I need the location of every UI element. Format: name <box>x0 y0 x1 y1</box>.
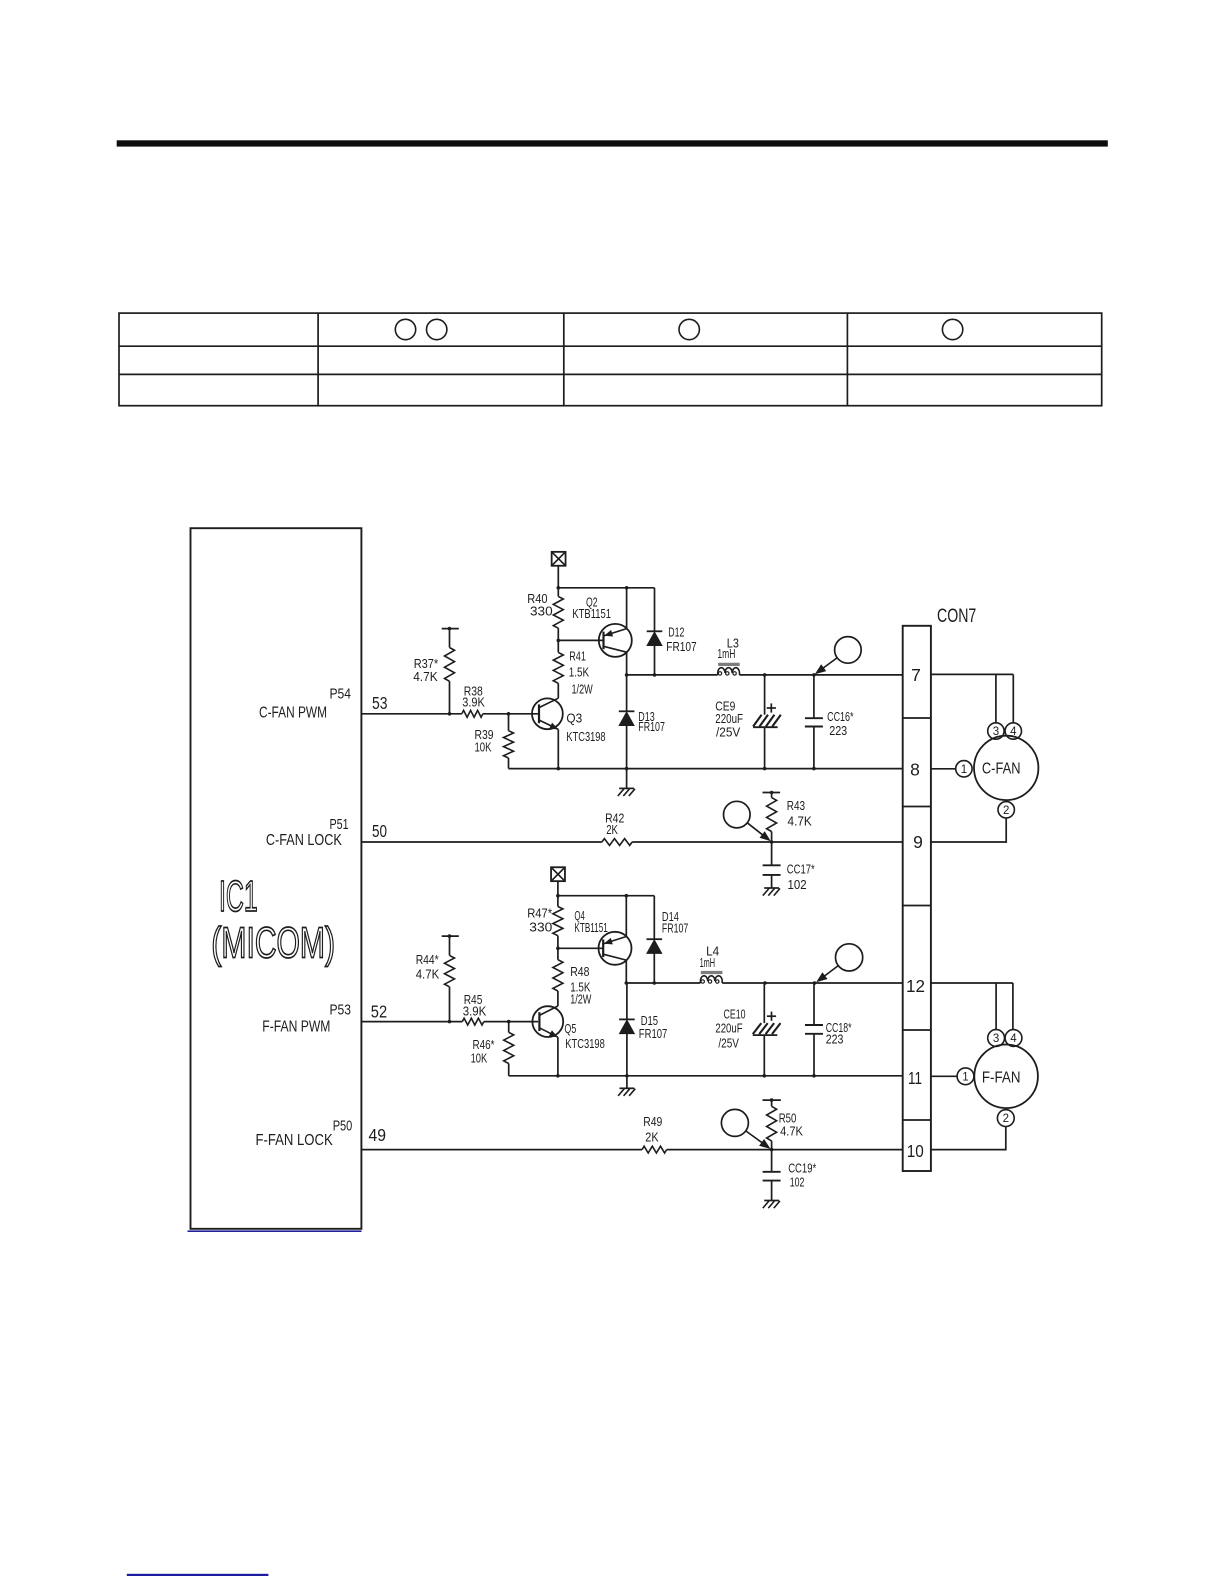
svg-text:F-FAN: F-FAN <box>982 1069 1021 1086</box>
resistor R42 2K <box>602 811 632 845</box>
callout circle on F lock wire <box>721 1109 748 1136</box>
svg-text:FR107: FR107 <box>639 1027 668 1041</box>
svg-text:1: 1 <box>961 764 967 776</box>
callout circle on F output wire <box>836 944 863 971</box>
table indicator circles <box>395 319 963 339</box>
resistor R43 4.7K <box>763 791 813 842</box>
svg-text:CON7: CON7 <box>937 606 976 627</box>
svg-text:2: 2 <box>1003 1113 1009 1125</box>
top rule bar <box>117 140 1108 146</box>
svg-text:102: 102 <box>788 878 807 892</box>
resistor R39 10K to emitter rail <box>475 714 514 769</box>
svg-text:223: 223 <box>826 1033 844 1047</box>
svg-text:7: 7 <box>911 665 921 685</box>
svg-text:D12: D12 <box>668 625 684 639</box>
svg-text:P53: P53 <box>330 1002 352 1019</box>
svg-text:12: 12 <box>906 976 925 996</box>
capacitor CC16 223 <box>805 675 854 769</box>
wires CON7 pin12 to F-FAN pins 3/4 <box>931 983 1013 1030</box>
svg-text:52: 52 <box>371 1002 387 1022</box>
svg-text:11: 11 <box>908 1068 922 1088</box>
svg-text:1: 1 <box>962 1071 968 1083</box>
svg-text:CC19*: CC19* <box>788 1162 816 1176</box>
svg-text:3: 3 <box>993 1033 999 1045</box>
resistor R41 1.5K 1/2W <box>553 640 593 696</box>
svg-text:9: 9 <box>913 832 923 852</box>
resistor R49 2K <box>642 1115 667 1153</box>
svg-text:4.7K: 4.7K <box>780 1125 803 1139</box>
resistor R47 330 <box>527 896 563 950</box>
svg-text:330: 330 <box>530 604 553 618</box>
svg-text:R50: R50 <box>779 1112 797 1126</box>
connector CON7 body <box>903 606 977 1171</box>
ground C channel <box>618 769 635 796</box>
resistor R45 3.9K series <box>462 993 487 1025</box>
svg-text:/25V: /25V <box>718 1036 739 1050</box>
diode D15 FR107 <box>619 983 667 1076</box>
svg-text:P54: P54 <box>330 685 352 702</box>
capacitor CC17 102 <box>763 842 815 892</box>
svg-text:53: 53 <box>372 693 388 713</box>
svg-text:102: 102 <box>790 1176 805 1190</box>
svg-text:1mH: 1mH <box>717 647 735 661</box>
callout circle on C lock wire <box>724 801 751 828</box>
wire C-FAN LOCK to CON7 pin 9 <box>361 840 902 844</box>
resistor R48 1.5K 1/2W <box>553 948 592 1006</box>
ground below CC19 <box>764 1200 779 1202</box>
electrolytic capacitor CE9 220uF/25V <box>715 675 781 769</box>
svg-text:223: 223 <box>829 724 847 738</box>
svg-text:KTB1151: KTB1151 <box>572 607 611 621</box>
svg-text:2K: 2K <box>645 1131 659 1145</box>
svg-text:FR107: FR107 <box>662 922 688 936</box>
svg-text:220uF: 220uF <box>715 712 743 726</box>
svg-text:1/2W: 1/2W <box>570 992 591 1006</box>
svg-text:Q5: Q5 <box>564 1022 576 1036</box>
svg-text:KTC3198: KTC3198 <box>566 730 605 744</box>
wire F-FAN LOCK to CON7 pin 10 <box>361 1148 902 1152</box>
svg-text:4.7K: 4.7K <box>788 815 813 829</box>
svg-text:IC1: IC1 <box>219 872 258 921</box>
svg-text:CC16*: CC16* <box>827 710 853 724</box>
svg-text:Q3: Q3 <box>566 712 582 726</box>
supply symbol boxed-X (C channel) <box>552 552 566 588</box>
resistor R50 4.7K <box>763 1098 804 1149</box>
supply symbol boxed-X (F channel) <box>551 867 565 895</box>
svg-text:R47*: R47* <box>527 907 552 921</box>
resistor R44 4.7K pull-up <box>416 934 459 1021</box>
wire F-FAN PWM from IC1 to Q5 base <box>361 1020 538 1024</box>
svg-text:/25V: /25V <box>716 725 741 739</box>
inductor L3 1mH <box>717 636 739 675</box>
pin P54 C-FAN PWM label <box>259 685 388 721</box>
diode D14 FR107 flyback <box>647 896 689 983</box>
svg-text:3.9K: 3.9K <box>462 695 485 709</box>
svg-text:P51: P51 <box>330 816 349 833</box>
C-FAN pin 1 wire from CON7 pin8 <box>931 761 972 777</box>
svg-text:1mH: 1mH <box>700 956 716 970</box>
svg-text:4: 4 <box>1010 726 1017 738</box>
footer link line <box>127 1574 269 1576</box>
svg-text:50: 50 <box>372 821 387 841</box>
svg-text:(MICOM): (MICOM) <box>211 919 335 968</box>
C-FAN pin 2 wire to CON7 pin9 <box>931 802 1015 842</box>
F-FAN pin 2 wire to CON7 pin10 <box>931 1110 1014 1150</box>
svg-text:2: 2 <box>1003 805 1009 817</box>
resistor R37 4.7K pull-up <box>413 627 459 714</box>
svg-text:C-FAN PWM: C-FAN PWM <box>259 705 327 722</box>
svg-text:R48: R48 <box>570 965 589 979</box>
svg-text:1.5K: 1.5K <box>569 665 590 679</box>
diode D12 FR107 flyback <box>647 588 697 675</box>
svg-text:FR107: FR107 <box>638 720 665 734</box>
svg-text:220uF: 220uF <box>715 1022 742 1036</box>
svg-text:4: 4 <box>1010 1033 1017 1045</box>
svg-text:F-FAN LOCK: F-FAN LOCK <box>256 1132 333 1149</box>
svg-text:R44*: R44* <box>416 953 439 967</box>
transistor Q4 KTB1151 (PNP) <box>558 896 632 983</box>
supply rail F channel <box>556 894 654 898</box>
IC1 label <box>211 872 335 968</box>
C-FAN motor <box>974 736 1038 800</box>
legend table <box>119 313 1102 406</box>
transistor Q5 KTC3198 <box>532 991 604 1076</box>
svg-text:10: 10 <box>907 1141 924 1161</box>
capacitor CC18 223 <box>805 983 852 1076</box>
svg-text:CC17*: CC17* <box>787 862 815 876</box>
wires CON7 pin7 to C-FAN pins 3/4 <box>931 674 1013 722</box>
resistor R46 10K <box>471 1022 514 1076</box>
svg-text:49: 49 <box>369 1125 387 1145</box>
inductor L4 1mH <box>700 944 723 983</box>
svg-text:F-FAN PWM: F-FAN PWM <box>262 1018 330 1035</box>
diode D13 FR107 <box>619 675 665 769</box>
svg-text:KTC3198: KTC3198 <box>565 1037 605 1051</box>
ground F channel <box>618 1076 635 1096</box>
F-FAN pin 1 wire from CON7 pin11 <box>931 1068 974 1085</box>
svg-text:330: 330 <box>529 921 552 935</box>
svg-text:1/2W: 1/2W <box>572 683 593 697</box>
F-FAN pin 3 <box>988 1030 1005 1047</box>
svg-text:D15: D15 <box>641 1014 658 1028</box>
C-FAN pin 3 <box>988 723 1004 739</box>
C emitter rail to CON7 pin 8 <box>509 767 903 771</box>
F-FAN output wire to CON7 pin 12 <box>625 981 903 985</box>
resistor R38 3.9K series <box>462 685 486 718</box>
F-FAN pin 4 <box>1005 1030 1022 1047</box>
transistor Q3 KTC3198 <box>532 683 606 768</box>
electrolytic capacitor CE10 220uF/25V <box>715 983 780 1076</box>
svg-text:FR107: FR107 <box>666 640 696 654</box>
svg-text:4.7K: 4.7K <box>413 670 438 684</box>
svg-text:R49: R49 <box>643 1115 662 1129</box>
IC1 MICOM box <box>191 528 362 1229</box>
pin P51 C-FAN LOCK label <box>266 816 387 849</box>
svg-text:C-FAN: C-FAN <box>982 761 1021 778</box>
svg-text:CE10: CE10 <box>724 1008 746 1022</box>
supply rail C channel <box>557 586 655 590</box>
svg-text:R41: R41 <box>569 650 586 664</box>
resistor R40 330 <box>527 588 563 642</box>
ground below CC17 <box>764 887 779 889</box>
capacitor CC19 102 <box>763 1150 817 1201</box>
F emitter rail to CON7 pin 11 <box>509 1074 903 1078</box>
svg-text:10K: 10K <box>471 1052 488 1066</box>
pin P53 F-FAN PWM label <box>262 1002 387 1036</box>
svg-text:C-FAN LOCK: C-FAN LOCK <box>266 832 342 849</box>
svg-text:2K: 2K <box>606 823 618 837</box>
svg-text:3.9K: 3.9K <box>463 1005 487 1019</box>
svg-text:R43: R43 <box>787 799 805 813</box>
svg-text:R46*: R46* <box>473 1038 495 1052</box>
F-FAN motor <box>974 1045 1038 1109</box>
C-FAN output wire to CON7 pin 7 <box>625 673 903 677</box>
svg-text:KTB1151: KTB1151 <box>574 921 607 935</box>
svg-text:4.7K: 4.7K <box>416 967 440 981</box>
C-FAN pin 4 <box>1005 723 1021 739</box>
svg-text:3: 3 <box>993 726 999 738</box>
svg-text:P50: P50 <box>333 1118 353 1135</box>
wire C-FAN PWM from IC1 to Q3 base <box>361 712 539 716</box>
svg-text:10K: 10K <box>475 741 492 755</box>
transistor Q2 KTB1151 (PNP) <box>558 588 632 675</box>
callout circle on C output wire <box>835 637 862 664</box>
svg-text:8: 8 <box>910 760 920 780</box>
pin P50 F-FAN LOCK label <box>256 1118 387 1150</box>
